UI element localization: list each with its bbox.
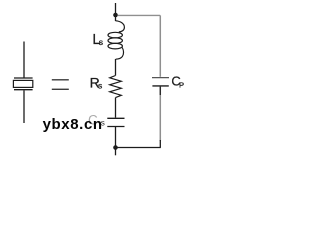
svg-text:s: s [99,37,103,47]
svg-text:P: P [179,81,184,90]
svg-text:s: s [98,81,102,91]
svg-text:ybx8.cn: ybx8.cn [43,116,103,133]
